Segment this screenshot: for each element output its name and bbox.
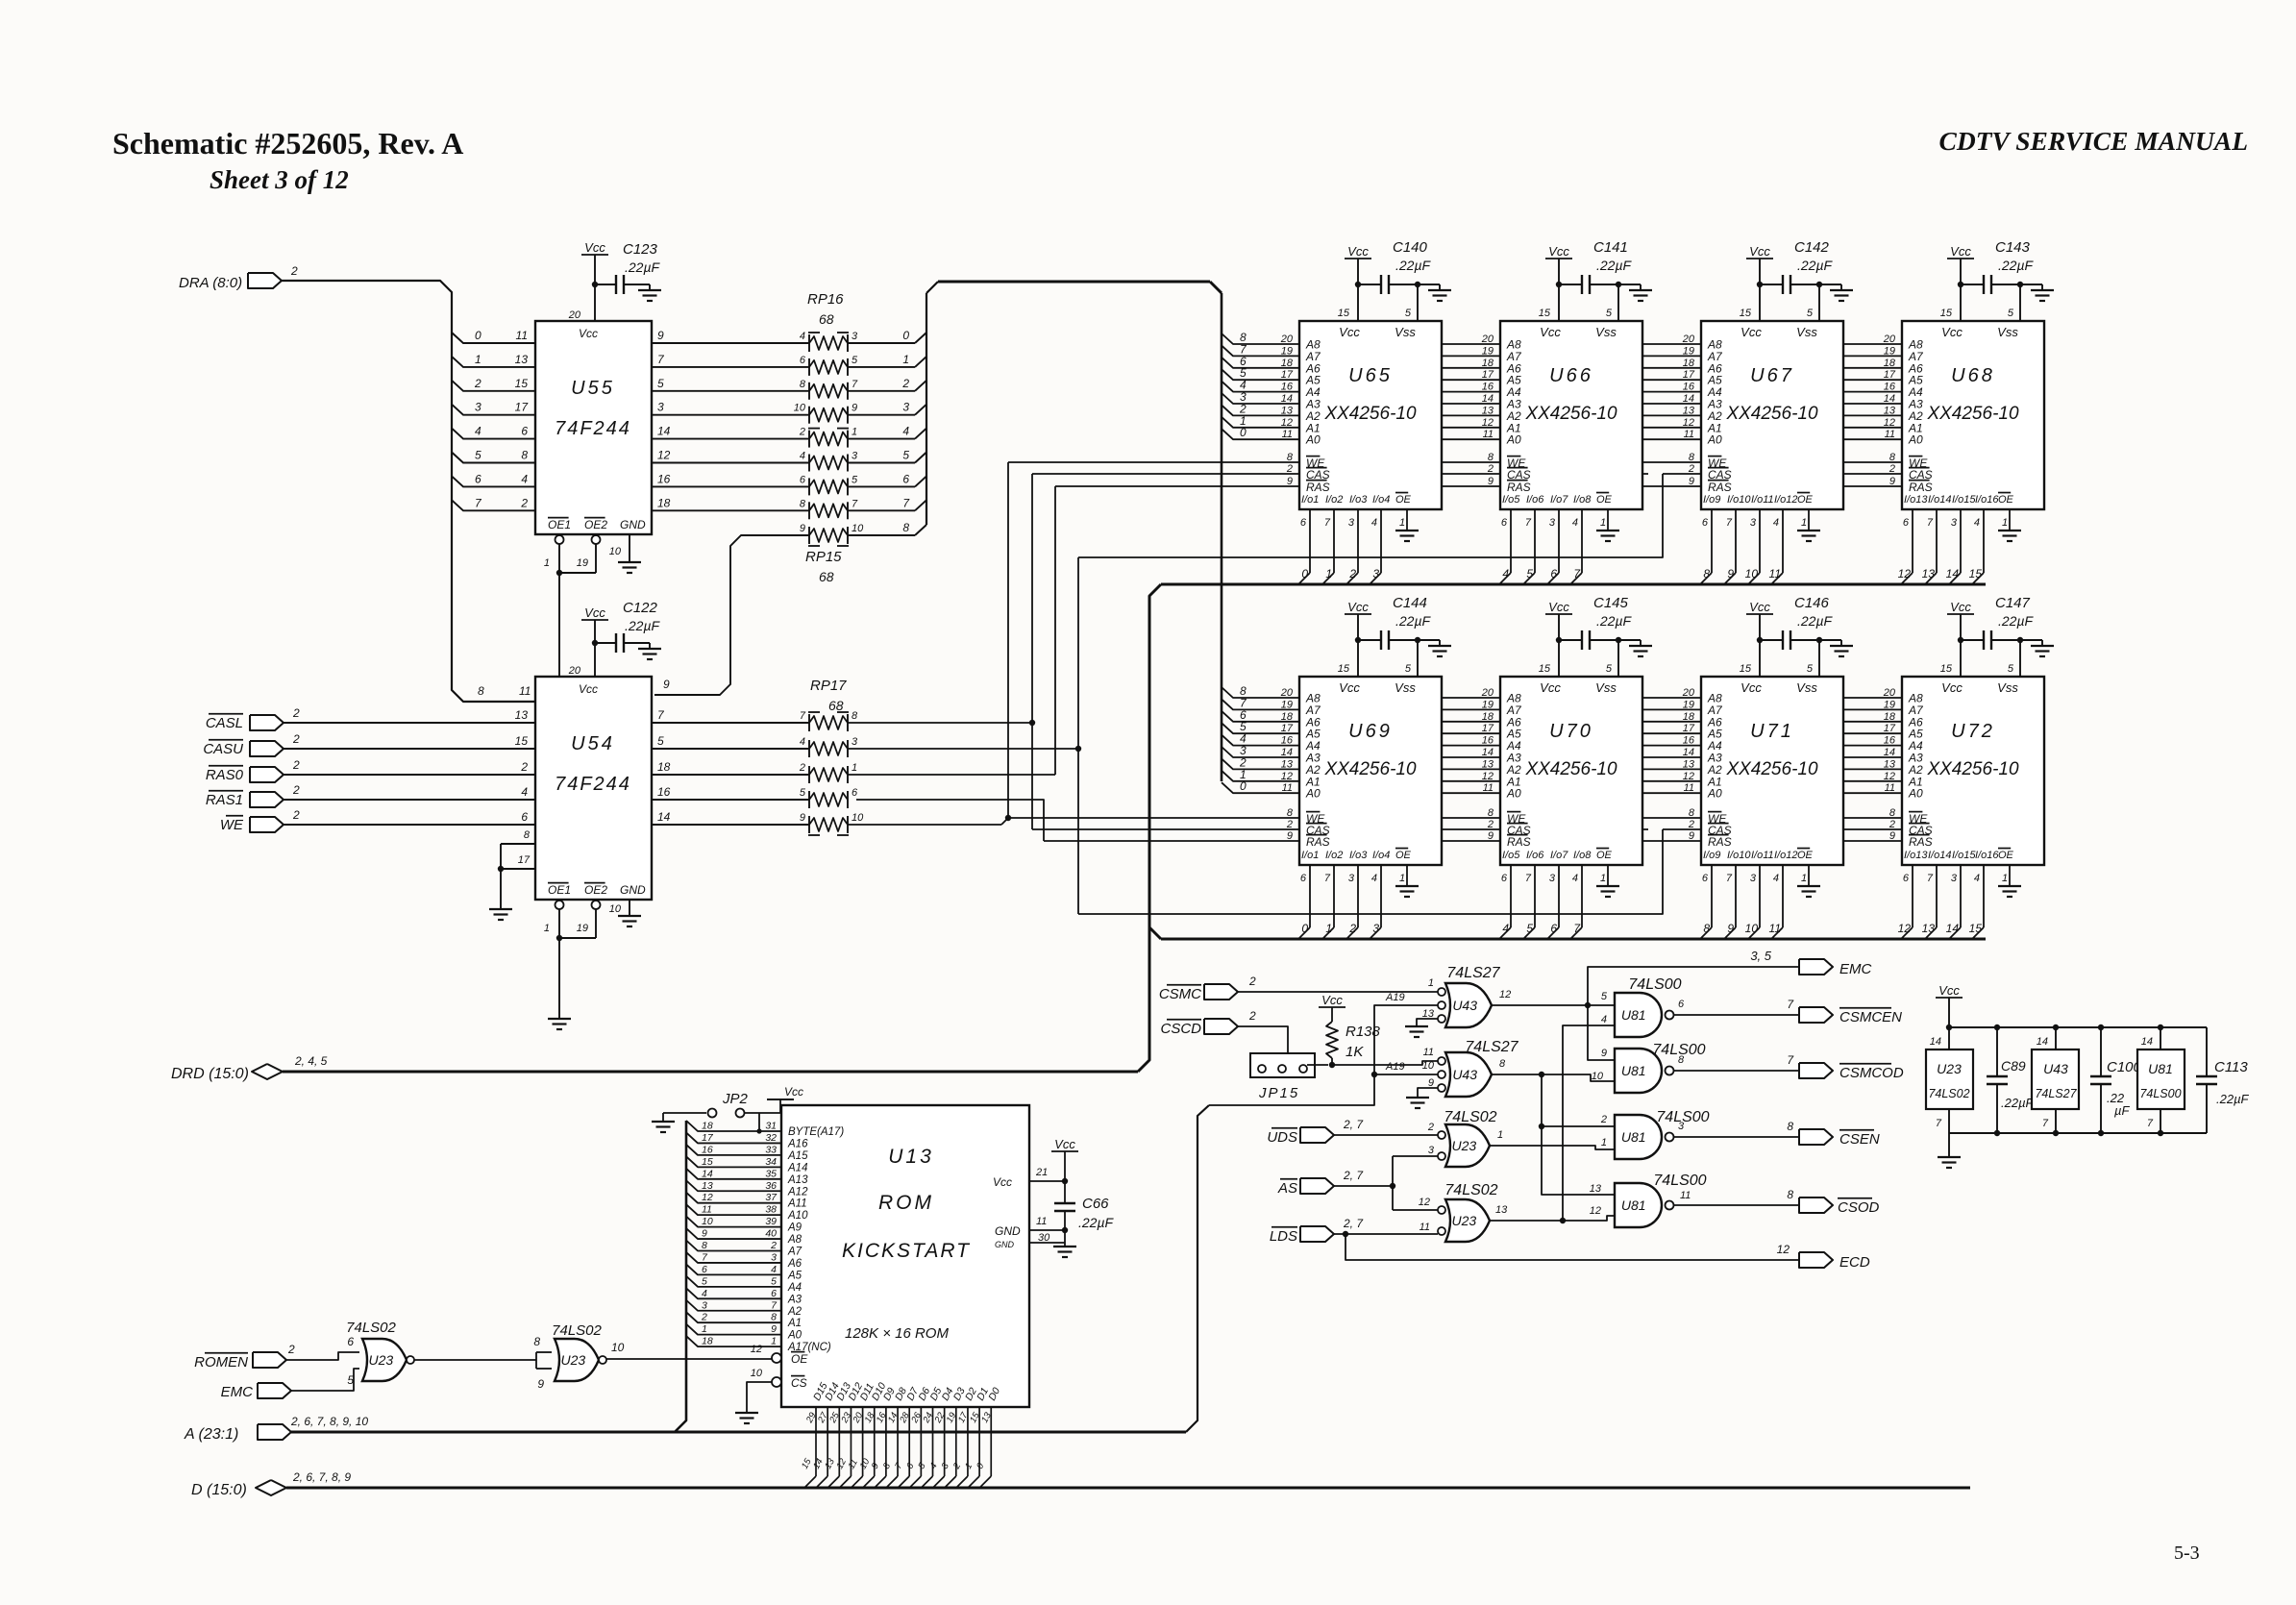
svg-text:2: 2 (1889, 819, 1895, 830)
svg-text:17: 17 (702, 1132, 714, 1144)
svg-text:U81: U81 (1621, 1007, 1646, 1023)
svg-text:8: 8 (771, 1312, 777, 1323)
svg-text:DRA (8:0): DRA (8:0) (179, 275, 242, 291)
svg-text:16: 16 (1683, 735, 1695, 747)
ground U55 GND pin10 (629, 534, 630, 562)
svg-text:U71: U71 (1750, 721, 1794, 742)
svg-text:4: 4 (800, 331, 805, 342)
svg-text:ROMEN: ROMEN (194, 1354, 248, 1370)
svg-text:1: 1 (2002, 873, 2008, 884)
svg-text:I/o3: I/o3 (1349, 494, 1368, 506)
svg-text:A0: A0 (1305, 433, 1321, 447)
svg-text:C147: C147 (1995, 595, 2031, 611)
svg-text:Vcc: Vcc (1741, 325, 1762, 339)
svg-text:2: 2 (292, 758, 300, 772)
svg-text:8: 8 (800, 379, 806, 390)
U54 pin20 Vcc + capacitor C122 (594, 620, 596, 677)
svg-text:U43: U43 (2043, 1061, 2068, 1076)
svg-text:16: 16 (1482, 735, 1494, 747)
svg-text:11: 11 (1885, 429, 1895, 440)
svg-text:10: 10 (852, 812, 864, 824)
svg-text:13: 13 (1884, 405, 1896, 416)
svg-text:4: 4 (521, 472, 528, 485)
wire CSEN (1673, 1136, 1799, 1138)
svg-text:19: 19 (1683, 699, 1694, 710)
svg-text:U68: U68 (1951, 365, 1995, 386)
svg-text:Vcc: Vcc (1741, 680, 1762, 695)
svg-text:8: 8 (1499, 1058, 1506, 1070)
wire U68 I/O13 to bus bit 12 (1912, 509, 1913, 573)
svg-text:Vss: Vss (1595, 325, 1617, 339)
svg-text:U13: U13 (888, 1146, 934, 1168)
svg-text:36: 36 (765, 1180, 777, 1192)
DRAM U68 XX4256-10 (1902, 321, 2044, 509)
svg-text:RAS: RAS (1708, 481, 1732, 494)
wire RP17 row CASL to junction (848, 722, 1032, 724)
svg-text:19: 19 (577, 923, 588, 934)
svg-text:Vcc: Vcc (1950, 600, 1971, 614)
svg-text:4: 4 (1371, 873, 1377, 884)
svg-text:U81: U81 (1621, 1063, 1646, 1078)
svg-text:Vss: Vss (1395, 325, 1416, 339)
svg-text:20: 20 (1280, 333, 1294, 345)
ROM CS pin10 grounded (772, 1377, 781, 1387)
U68 Vcc pin15 Vss pin5 + bypass capacitor C143 (1960, 284, 1962, 321)
svg-text:7: 7 (2147, 1118, 2154, 1129)
svg-text:5: 5 (1807, 308, 1814, 319)
svg-text:10: 10 (1422, 1060, 1435, 1072)
svg-text:8: 8 (1787, 1188, 1793, 1201)
svg-text:CSOD: CSOD (1838, 1199, 1880, 1216)
ground U54 OE (558, 938, 560, 1019)
svg-text:12: 12 (1884, 417, 1895, 429)
svg-text:74F244: 74F244 (555, 418, 631, 439)
svg-text:RP17: RP17 (810, 678, 847, 694)
svg-text:20: 20 (568, 309, 581, 321)
svg-text:I/o5: I/o5 (1502, 850, 1520, 861)
svg-text:6: 6 (702, 1264, 707, 1275)
svg-text:U67: U67 (1750, 365, 1794, 386)
svg-text:A19: A19 (1385, 1061, 1405, 1073)
U54 pins 8 and 17 tied to ground (501, 843, 535, 845)
svg-text:12: 12 (1281, 771, 1293, 782)
wire RAS1 to U54 (284, 799, 535, 801)
wire U68 I/O16 to bus bit 15 (1983, 509, 1985, 573)
svg-text:40: 40 (765, 1228, 777, 1240)
U65 Vcc pin15 Vss pin5 + bypass capacitor C140 (1357, 284, 1359, 321)
svg-text:6: 6 (1501, 873, 1508, 884)
svg-text:13: 13 (1482, 405, 1494, 416)
wire row2 CAS line right half (1663, 828, 1902, 830)
svg-text:3: 3 (852, 736, 858, 748)
svg-text:17: 17 (518, 854, 531, 866)
svg-text:XX4256-10: XX4256-10 (1725, 759, 1818, 779)
svg-text:9: 9 (1601, 1048, 1607, 1059)
svg-text:17: 17 (1683, 369, 1695, 381)
svg-text:OE1: OE1 (548, 883, 571, 897)
svg-text:8: 8 (1703, 922, 1710, 935)
svg-text:ECD: ECD (1839, 1254, 1870, 1271)
svg-text:16: 16 (1884, 382, 1896, 393)
DRAM U69 XX4256-10 (1299, 677, 1442, 865)
svg-text:19: 19 (1281, 699, 1293, 710)
svg-text:ROM: ROM (878, 1192, 934, 1214)
svg-text:Vcc: Vcc (1540, 325, 1561, 339)
wire row2 WE line (1001, 818, 1902, 825)
DRAM U71 XX4256-10 (1701, 677, 1843, 865)
svg-text:3: 3 (1428, 1145, 1435, 1156)
svg-text:11: 11 (1680, 1190, 1691, 1201)
svg-text:9: 9 (1488, 476, 1494, 487)
wire U55 out row 4 (652, 438, 809, 440)
svg-text:5: 5 (702, 1275, 707, 1287)
svg-text:I/o2: I/o2 (1325, 850, 1343, 861)
svg-text:18: 18 (1683, 358, 1695, 369)
svg-text:14: 14 (657, 810, 671, 824)
svg-text:GND: GND (620, 883, 646, 897)
svg-text:11: 11 (516, 329, 528, 342)
svg-text:U81: U81 (1621, 1129, 1646, 1145)
svg-text:2: 2 (799, 762, 805, 774)
svg-text:A3: A3 (787, 1294, 802, 1305)
svg-text:Vcc: Vcc (1938, 983, 1960, 998)
svg-text:Sheet 3 of 12: Sheet 3 of 12 (210, 165, 349, 194)
svg-text:12: 12 (1683, 771, 1694, 782)
svg-text:6: 6 (1702, 873, 1709, 884)
address lines row2 (9 bits) to U72 (1222, 687, 1902, 698)
svg-text:4: 4 (1773, 873, 1779, 884)
svg-text:7: 7 (1324, 517, 1331, 529)
svg-text:13: 13 (1683, 758, 1695, 770)
wire U43#1 to U81#1 pin5 (1588, 1004, 1615, 1006)
svg-text:1K: 1K (1346, 1044, 1364, 1060)
svg-text:U66: U66 (1549, 365, 1593, 386)
svg-text:12: 12 (1898, 922, 1912, 935)
svg-text:18: 18 (702, 1336, 713, 1347)
svg-text:I/o12: I/o12 (1774, 850, 1797, 861)
svg-text:15: 15 (1539, 308, 1551, 319)
DRAM U65 XX4256-10 (1299, 321, 1442, 509)
svg-text:2: 2 (292, 808, 300, 822)
svg-text:6: 6 (852, 787, 858, 799)
svg-text:XX4256-10: XX4256-10 (1725, 404, 1818, 424)
wire gate2 to ROM OE (606, 1358, 772, 1360)
svg-text:I/o4: I/o4 (1372, 494, 1390, 506)
svg-text:.22µF: .22µF (1998, 258, 2035, 273)
svg-text:.22µF: .22µF (1797, 258, 1834, 273)
bus A horizontal (291, 1431, 1186, 1434)
svg-text:5: 5 (475, 449, 481, 462)
svg-text:14: 14 (702, 1168, 713, 1179)
svg-text:3: 3 (852, 331, 858, 342)
svg-text:I/o7: I/o7 (1550, 850, 1568, 861)
svg-text:.22µF: .22µF (2216, 1092, 2250, 1106)
svg-text:4: 4 (1601, 1014, 1607, 1025)
svg-text:RAS: RAS (1306, 835, 1330, 849)
svg-text:11: 11 (1282, 429, 1293, 440)
svg-text:3: 3 (852, 451, 858, 462)
wire ROM D2 to D bus (967, 1407, 969, 1476)
svg-text:2: 2 (1286, 463, 1293, 475)
svg-text:12: 12 (1590, 1205, 1601, 1217)
svg-text:Vcc: Vcc (1339, 325, 1360, 339)
svg-text:9: 9 (1727, 567, 1734, 580)
wire row1 RAS line (1055, 485, 1902, 487)
svg-text:2, 7: 2, 7 (1343, 1118, 1364, 1131)
wire row8 to DRA column bus (848, 534, 915, 536)
svg-text:14: 14 (1930, 1036, 1941, 1048)
svg-text:13: 13 (1482, 758, 1494, 770)
DRAM U66 XX4256-10 (1500, 321, 1642, 509)
wire RP17 row RAS0 to junction (848, 774, 1055, 776)
svg-text:A0: A0 (1707, 433, 1722, 447)
bus DRD vertical trunk (1138, 584, 1161, 1072)
wire U55 out row 0 (652, 342, 809, 344)
wire U70 I/O5 to bus bit 4 (1510, 865, 1512, 927)
svg-text:6: 6 (1678, 999, 1685, 1010)
svg-text:3: 3 (1549, 517, 1556, 529)
svg-text:I/o1: I/o1 (1301, 850, 1319, 861)
wire U72 I/O13 to bus bit 12 (1912, 865, 1913, 927)
svg-text:A16: A16 (787, 1138, 808, 1149)
svg-text:OE2: OE2 (584, 883, 607, 897)
svg-text:8: 8 (1287, 807, 1294, 819)
svg-text:2, 7: 2, 7 (1343, 1169, 1364, 1182)
svg-text:68: 68 (819, 569, 834, 584)
svg-text:.22µF: .22µF (1395, 258, 1432, 273)
wire CSMCOD (1673, 1070, 1799, 1072)
svg-text:A8: A8 (787, 1234, 802, 1246)
svg-text:LDS: LDS (1270, 1228, 1297, 1245)
svg-text:5: 5 (2008, 663, 2014, 675)
svg-text:11: 11 (1420, 1222, 1430, 1233)
svg-text:Vcc: Vcc (1749, 600, 1770, 614)
wire ROM D11 to D bus (862, 1407, 864, 1476)
svg-text:9: 9 (800, 812, 805, 824)
DRAM U70 XX4256-10 (1500, 677, 1642, 865)
svg-text:CASU: CASU (203, 741, 243, 757)
svg-text:20: 20 (1481, 333, 1494, 345)
svg-text:6: 6 (1903, 873, 1910, 884)
wire U67 I/O9 to bus bit 8 (1711, 509, 1713, 573)
svg-text:9: 9 (1689, 476, 1694, 487)
wire UDS to U23#1 pin2 (1334, 1134, 1438, 1136)
svg-text:C113: C113 (2214, 1059, 2248, 1075)
svg-text:2: 2 (520, 496, 528, 509)
DRA column bus up to top rail (926, 293, 927, 525)
svg-text:µF: µF (2114, 1103, 2130, 1118)
svg-text:13: 13 (1683, 405, 1695, 416)
svg-text:6: 6 (1300, 873, 1307, 884)
svg-text:128K × 16 ROM: 128K × 16 ROM (845, 1325, 949, 1342)
resistor RP16/RP15 element row 3 (809, 408, 848, 422)
svg-text:JP2: JP2 (722, 1091, 749, 1107)
power bottom rail (1949, 1132, 2207, 1134)
svg-text:15: 15 (702, 1156, 713, 1168)
wire U54 out row 4 to RP17 (652, 824, 809, 826)
wire U43#2 output to U81#2 pin10 and U81#4 pin13 (1492, 1074, 1615, 1081)
svg-text:18: 18 (657, 496, 671, 509)
svg-text:30: 30 (1038, 1232, 1050, 1244)
svg-text:10: 10 (751, 1368, 763, 1379)
wire U23#3 output to U81#3 pin1 (1490, 1146, 1615, 1149)
svg-text:2: 2 (1487, 819, 1494, 830)
svg-text:RP15: RP15 (805, 549, 842, 565)
svg-text:XX4256-10: XX4256-10 (1524, 404, 1617, 424)
svg-text:AS: AS (1277, 1180, 1297, 1197)
bus A riser to A19 (1186, 1105, 1209, 1432)
svg-text:RAS: RAS (1708, 835, 1732, 849)
U72 Vcc pin15 Vss pin5 + bypass capacitor C147 (1960, 640, 1962, 677)
svg-text:1: 1 (771, 1336, 777, 1347)
svg-text:U55: U55 (571, 378, 615, 399)
svg-text:C66: C66 (1082, 1196, 1109, 1212)
svg-text:19: 19 (1482, 345, 1494, 357)
svg-text:18: 18 (702, 1121, 713, 1132)
svg-text:19: 19 (1482, 699, 1494, 710)
svg-text:10: 10 (1745, 567, 1759, 580)
wire U71 I/O12 to bus bit 11 (1782, 865, 1784, 927)
bus DRD row1 I/O rail (1161, 583, 1986, 586)
svg-text:7: 7 (1936, 1118, 1942, 1129)
DRAM U67 XX4256-10 (1701, 321, 1843, 509)
svg-text:U43: U43 (1452, 1067, 1477, 1082)
svg-text:8: 8 (800, 498, 806, 509)
svg-text:6: 6 (1550, 567, 1557, 580)
svg-text:4: 4 (1572, 517, 1578, 529)
wire ROM D8 to D bus (897, 1407, 899, 1476)
svg-text:7: 7 (1726, 873, 1733, 884)
svg-text:OE: OE (1797, 850, 1814, 861)
svg-text:4: 4 (521, 785, 528, 799)
svg-text:11: 11 (1684, 782, 1694, 794)
wire U67 I/O12 to bus bit 11 (1782, 509, 1784, 573)
svg-text:7: 7 (1525, 873, 1532, 884)
svg-text:2, 4, 5: 2, 4, 5 (294, 1054, 328, 1068)
svg-text:.22µF: .22µF (1797, 613, 1834, 629)
svg-text:4: 4 (475, 425, 481, 438)
svg-text:CSEN: CSEN (1839, 1131, 1880, 1148)
svg-text:5: 5 (852, 355, 858, 366)
svg-text:19: 19 (577, 557, 588, 569)
svg-text:14: 14 (1281, 393, 1293, 405)
capacitor C89 (1996, 1027, 1998, 1076)
ground power block (1948, 1133, 1950, 1157)
wire ROM D15 to D bus (815, 1407, 817, 1476)
svg-text:A0: A0 (1908, 433, 1923, 447)
svg-text:1: 1 (1325, 567, 1332, 580)
svg-text:I/o9: I/o9 (1703, 494, 1720, 506)
svg-text:Vcc: Vcc (584, 240, 605, 255)
svg-text:RAS: RAS (1306, 481, 1330, 494)
wire ROM D13 to D bus (838, 1407, 840, 1476)
wire row 4 to DRA column bus (848, 438, 915, 440)
svg-text:1: 1 (475, 353, 481, 366)
svg-text:19: 19 (1884, 699, 1895, 710)
svg-text:8: 8 (1689, 807, 1695, 819)
svg-text:I/o13: I/o13 (1904, 850, 1928, 861)
resistor RP16/RP15 element row 2 (809, 384, 848, 398)
svg-text:7: 7 (852, 498, 858, 509)
jumper JP15 (1250, 1053, 1315, 1077)
svg-text:7: 7 (1726, 517, 1733, 529)
resistor RP16/RP15 element row 1 (809, 360, 848, 374)
svg-text:I/o8: I/o8 (1573, 850, 1592, 861)
svg-text:35: 35 (765, 1168, 777, 1179)
svg-text:4: 4 (1974, 517, 1980, 529)
svg-text:15: 15 (515, 377, 529, 390)
wire CSMCEN (1673, 1014, 1799, 1016)
wire U55 out row 1 (652, 366, 809, 368)
svg-text:I/o13: I/o13 (1904, 494, 1928, 506)
svg-text:2: 2 (1688, 463, 1694, 475)
svg-text:1: 1 (544, 557, 550, 569)
svg-text:A0: A0 (787, 1330, 802, 1342)
ground U43#1 pin13 (1417, 1019, 1438, 1026)
svg-text:10: 10 (702, 1216, 713, 1227)
svg-text:74LS00: 74LS00 (1653, 1173, 1706, 1189)
svg-text:4: 4 (800, 451, 805, 462)
svg-text:RAS1: RAS1 (206, 792, 243, 808)
svg-text:5: 5 (771, 1275, 777, 1287)
svg-text:3: 3 (1372, 567, 1379, 580)
resistor RP17 element 0 (809, 716, 848, 729)
svg-text:19: 19 (1683, 345, 1694, 357)
svg-text:1: 1 (1399, 873, 1405, 884)
svg-text:RAS: RAS (1909, 481, 1933, 494)
svg-text:17: 17 (1884, 723, 1896, 734)
resistor RP17 element 3 (809, 793, 848, 806)
wire U69 I/O3 to bus bit 2 (1357, 865, 1359, 927)
wire ROM D1 to D bus (978, 1407, 980, 1476)
bus ripper diagonals DRA bits 0-7 into U55 (452, 333, 535, 343)
svg-text:6: 6 (521, 425, 528, 438)
svg-text:3: 3 (1549, 873, 1556, 884)
vertical CASU riser (1077, 557, 1079, 914)
svg-text:OE: OE (1596, 850, 1613, 861)
svg-text:XX4256-10: XX4256-10 (1323, 759, 1417, 779)
svg-text:0: 0 (1301, 922, 1308, 935)
svg-text:18: 18 (657, 760, 671, 774)
svg-text:13: 13 (1590, 1183, 1602, 1195)
svg-text:5: 5 (657, 734, 664, 748)
svg-text:6: 6 (521, 810, 528, 824)
svg-text:5: 5 (1526, 567, 1533, 580)
svg-text:4: 4 (1502, 567, 1509, 580)
svg-text:8: 8 (1287, 452, 1294, 463)
svg-text:14: 14 (1683, 393, 1694, 405)
wire U55 out row 3 (652, 414, 809, 416)
wire U55 out row 7 (652, 509, 809, 511)
svg-text:A6: A6 (787, 1258, 802, 1270)
svg-text:1: 1 (1600, 517, 1606, 529)
svg-text:3, 5: 3, 5 (1750, 949, 1771, 963)
svg-text:7: 7 (1927, 873, 1934, 884)
svg-text:A11: A11 (787, 1198, 807, 1210)
svg-text:17: 17 (1482, 723, 1494, 734)
U70 Vcc pin15 Vss pin5 + bypass capacitor C145 (1558, 640, 1560, 677)
svg-text:11: 11 (1282, 782, 1293, 794)
svg-text:10: 10 (609, 903, 622, 915)
resistor RP16/RP15 element row 6 (809, 480, 848, 493)
svg-text:XX4256-10: XX4256-10 (1524, 759, 1617, 779)
wire ROM D14 to D bus (827, 1407, 828, 1476)
svg-text:U23: U23 (1937, 1061, 1962, 1076)
svg-text:3: 3 (771, 1251, 777, 1263)
svg-text:5: 5 (902, 449, 909, 462)
svg-text:C144: C144 (1393, 595, 1427, 611)
svg-text:A0: A0 (1707, 787, 1722, 801)
